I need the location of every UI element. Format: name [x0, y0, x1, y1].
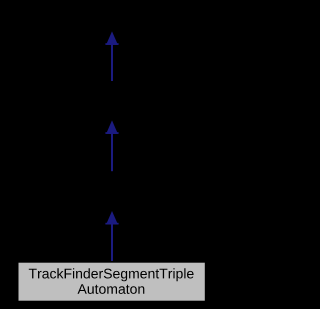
- inheritance arrow A3 (bottom): head base nub: [105, 223, 118, 225]
- inheritance arrow A1 (top): head: [106, 31, 118, 45]
- inheritance arrow A2 (middle): head: [106, 120, 118, 133]
- inheritance arrow A1 (top): shaft: [111, 44, 113, 81]
- node label line 1: TrackFinderSegmentTriple: [29, 268, 194, 281]
- inheritance arrow A2 (middle): shaft: [111, 133, 113, 171]
- inheritance arrow A2 (middle): head base nub: [105, 132, 118, 134]
- inheritance arrow A3 (bottom): head: [106, 211, 118, 225]
- node box TrackFinderSegmentTripleAutomaton: [19, 263, 205, 301]
- node label line 2: Automaton: [78, 284, 145, 294]
- inheritance arrow A1 (top): head base nub: [105, 43, 118, 45]
- inheritance arrow A3 (bottom): shaft: [111, 224, 113, 262]
